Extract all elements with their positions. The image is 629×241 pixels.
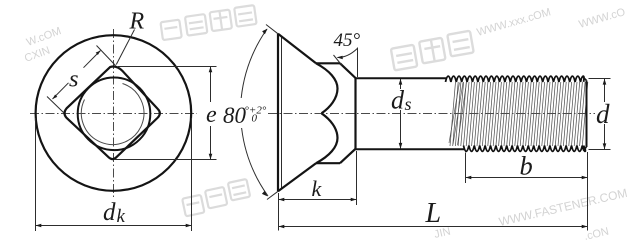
svg-text:s: s	[69, 66, 79, 93]
s arrows	[96, 51, 101, 56]
svg-text:d: d	[596, 99, 610, 129]
watermark bottom-right	[433, 186, 629, 241]
s dimension extension lines	[47, 46, 116, 113]
80 deg angle arc	[241, 29, 267, 98]
svg-text:CXIN: CXIN	[23, 45, 52, 65]
e arrows	[209, 67, 213, 73]
square neck outline	[64, 67, 159, 160]
b arrows	[466, 176, 472, 180]
watermark middle CJK over head	[390, 31, 474, 71]
k extension lines	[279, 151, 357, 231]
center lines	[30, 29, 197, 197]
dk dimension line	[36, 225, 192, 227]
R leader	[116, 30, 134, 65]
svg-text:b: b	[520, 151, 533, 181]
45 deg extension vertical	[357, 48, 359, 78]
svg-text:R: R	[129, 9, 145, 35]
45 deg chamfer extension	[334, 55, 343, 66]
d dimension line	[604, 79, 606, 150]
ds arrows	[399, 79, 403, 85]
svg-text:k: k	[312, 176, 323, 201]
svg-text:s: s	[405, 94, 412, 114]
axis center line	[268, 113, 595, 115]
svg-text:d: d	[391, 86, 405, 115]
e dimension extension lines	[114, 67, 217, 160]
svg-text:WWW.cO: WWW.cO	[578, 6, 628, 31]
45 deg leader arc	[338, 49, 358, 58]
L extension line right	[587, 152, 589, 231]
neck bottom line	[316, 162, 340, 164]
thread crest zigzag bottom	[464, 146, 586, 152]
b dimension line	[466, 177, 588, 179]
thread hatch lines	[449, 83, 467, 146]
L arrows	[279, 225, 285, 229]
neck top line	[316, 62, 340, 64]
thread end bevel top	[583, 77, 587, 81]
svg-text:d: d	[103, 199, 116, 226]
cone bottom edge	[278, 163, 316, 191]
neck bottom chamfer	[340, 149, 356, 163]
80 deg arrows	[262, 29, 267, 35]
ds dimension line	[400, 79, 402, 149]
neck lower bulge arc	[316, 113, 338, 163]
head flat face	[277, 34, 279, 192]
svg-text:WWW.xxx.cOM: WWW.xxx.cOM	[476, 6, 553, 39]
e dimension line	[210, 67, 212, 103]
L dimension line	[279, 226, 588, 228]
thread thin arc	[81, 84, 144, 145]
k dimension line	[279, 199, 357, 201]
thread crest zigzag top	[446, 76, 584, 82]
thread end bevel bottom	[583, 147, 587, 151]
watermark top-center CJK	[160, 5, 257, 40]
b dimension extension line left	[465, 153, 467, 184]
cone top edge	[278, 34, 316, 64]
svg-text:k: k	[117, 206, 126, 227]
dk arrows	[36, 224, 42, 228]
shank circle bold	[78, 78, 151, 151]
watermark bottom-center	[181, 179, 252, 216]
neck top chamfer	[340, 63, 356, 78]
neck end face	[354, 78, 356, 150]
thread end face	[586, 81, 588, 148]
cone top extension thin	[266, 25, 278, 34]
svg-text:WWW.FASTENER.COM: WWW.FASTENER.COM	[498, 186, 629, 229]
svg-text:45°: 45°	[334, 30, 361, 51]
d arrows	[603, 79, 607, 85]
svg-text:0: 0	[252, 113, 258, 125]
s dimension line	[53, 83, 69, 99]
head rim thin line	[281, 37, 283, 189]
shank bottom line	[356, 148, 465, 150]
head outer circle dk	[36, 35, 192, 191]
neck upper bulge arc	[316, 63, 338, 113]
svg-text:e: e	[206, 102, 217, 128]
d dimension extension lines	[589, 79, 611, 150]
cone bottom extension thin	[267, 191, 278, 199]
dk extension lines	[36, 118, 192, 231]
watermark top-left	[23, 25, 63, 65]
45 deg arrow	[337, 56, 343, 60]
shank top line	[356, 77, 447, 79]
k arrows	[279, 198, 285, 202]
svg-text:L: L	[425, 198, 442, 229]
svg-text:80: 80	[223, 103, 247, 128]
